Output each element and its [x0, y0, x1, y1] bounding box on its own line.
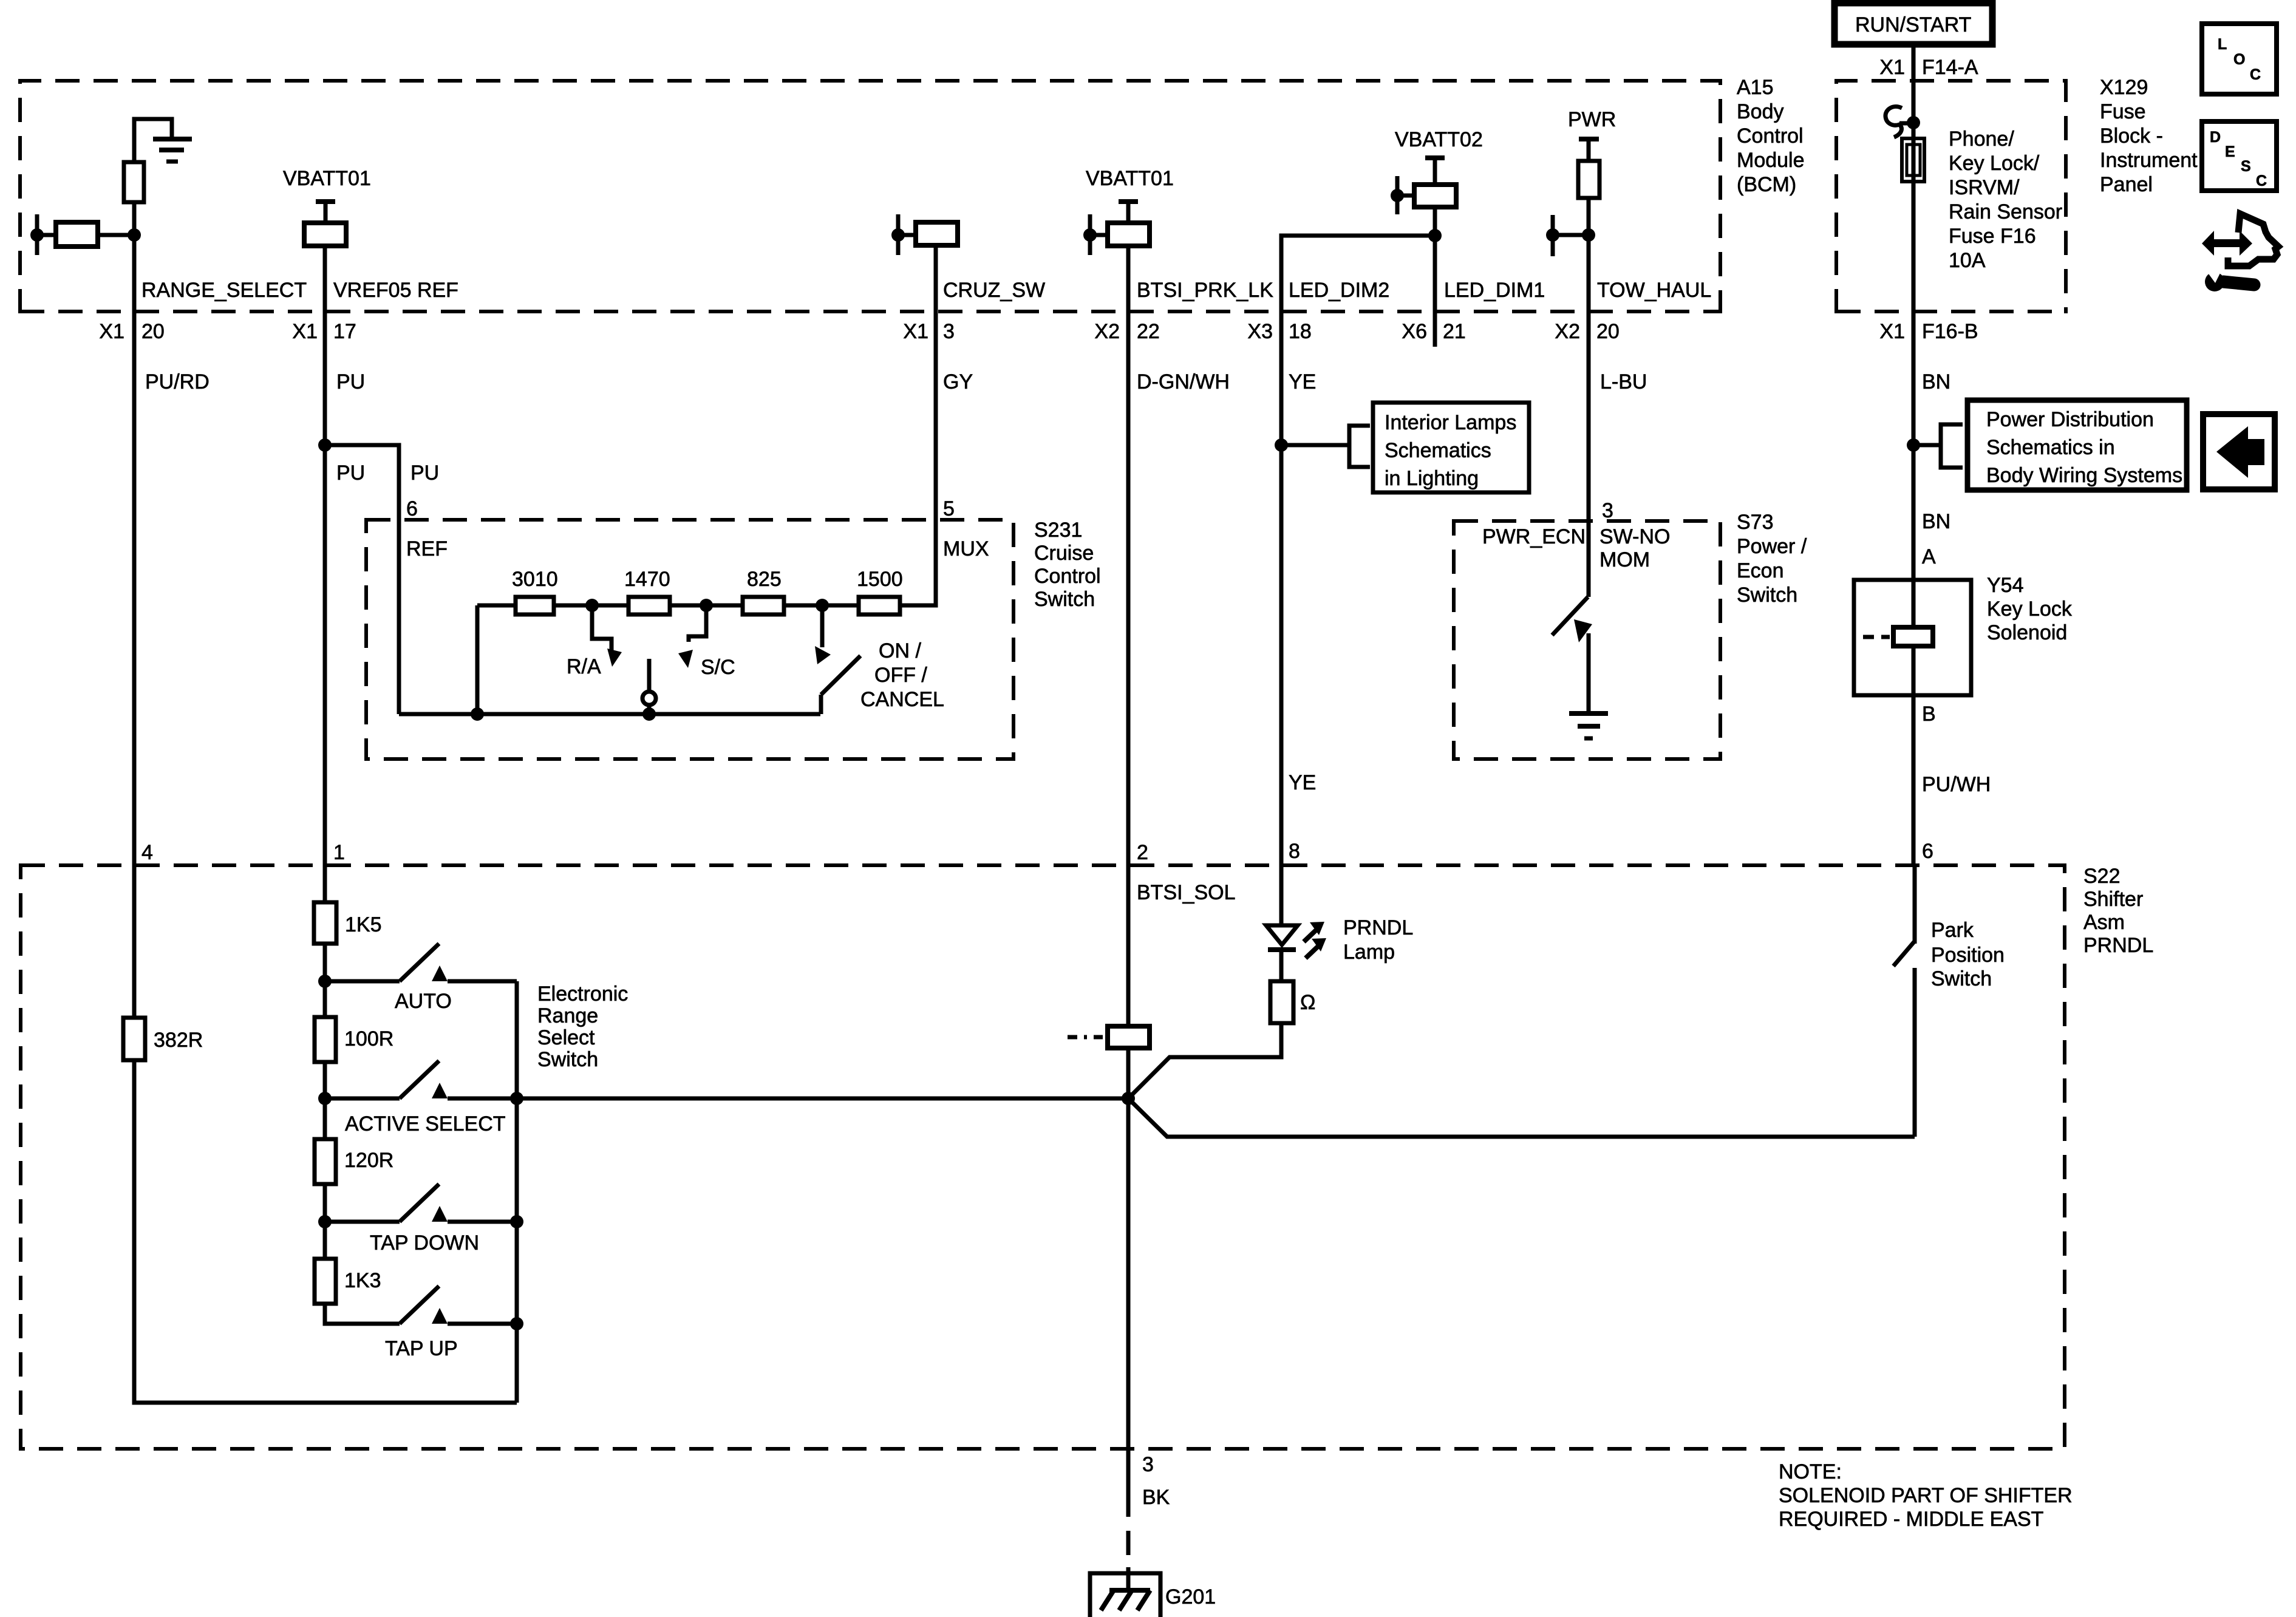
svg-text:REQUIRED - MIDDLE EAST: REQUIRED - MIDDLE EAST	[1779, 1508, 2043, 1531]
svg-text:YE: YE	[1289, 771, 1316, 794]
wire BTSI_PRK_LK (D-GN/WH) BCM X2-22 down to S22 pin 2	[1126, 246, 1131, 1026]
switch TAP DOWN	[325, 1184, 517, 1254]
wire branch PU to cruise REF pin 6	[325, 445, 399, 714]
ground (BCM internal, top left)	[134, 119, 192, 162]
svg-text:SW-NO: SW-NO	[1599, 525, 1670, 548]
wire from pull-up resistor to junction	[132, 202, 137, 235]
resistor 382R	[123, 1018, 203, 1060]
svg-text:MOM: MOM	[1599, 548, 1650, 571]
svg-text:(BCM): (BCM)	[1737, 173, 1796, 196]
PRNDL Lamp label	[1343, 916, 1413, 964]
svg-text:S22: S22	[2083, 865, 2121, 888]
cruise ladder: REF rail bottom	[399, 707, 820, 721]
svg-text:Switch: Switch	[1737, 584, 1797, 607]
svg-text:Body Wiring Systems: Body Wiring Systems	[1986, 464, 2182, 487]
svg-text:Solenoid: Solenoid	[1987, 621, 2067, 644]
wire PU/WH Y54 pin B down to S22 pin 6	[1912, 695, 1916, 865]
svg-text:ON /: ON /	[879, 639, 921, 662]
switch S73 blade (SW-NO MOM)	[1552, 597, 1592, 711]
svg-text:X2: X2	[1555, 320, 1580, 343]
svg-text:A15: A15	[1737, 76, 1774, 99]
wire VBATT02 to LED_DIM1 node	[1428, 207, 1442, 242]
svg-text:Range: Range	[537, 1004, 598, 1027]
svg-text:O: O	[2233, 51, 2245, 68]
svg-text:ISRVM/: ISRVM/	[1949, 176, 2020, 199]
svg-text:3: 3	[943, 320, 955, 343]
svg-text:GY: GY	[943, 370, 973, 393]
svg-text:Shifter: Shifter	[2083, 888, 2143, 911]
svg-text:21: 21	[1443, 320, 1466, 343]
svg-text:Body: Body	[1737, 100, 1784, 123]
fuse pull hook	[1886, 107, 1912, 137]
svg-text:S231: S231	[1034, 519, 1082, 542]
svg-text:S: S	[2241, 158, 2251, 175]
svg-text:Park: Park	[1931, 919, 1974, 942]
svg-text:NOTE:: NOTE:	[1779, 1460, 1842, 1483]
svg-text:VBATT02: VBATT02	[1395, 128, 1483, 151]
svg-text:Fuse F16: Fuse F16	[1949, 225, 2036, 248]
pin X1 F16-B (fuse output)	[1879, 320, 1978, 343]
svg-text:PU: PU	[336, 370, 365, 393]
svg-text:F16-B: F16-B	[1922, 320, 1978, 343]
svg-text:VBATT01: VBATT01	[283, 167, 371, 190]
svg-text:BK: BK	[1142, 1486, 1170, 1509]
net name SW-NO MOM	[1599, 525, 1670, 571]
svg-text:Module: Module	[1737, 149, 1805, 172]
svg-text:YE: YE	[1289, 370, 1316, 393]
wire 1K3 to TAP UP row	[325, 1304, 400, 1324]
svg-text:Power Distribution: Power Distribution	[1986, 408, 2154, 431]
svg-text:CRUZ_SW: CRUZ_SW	[943, 279, 1045, 302]
svg-text:OFF /: OFF /	[874, 664, 927, 687]
svg-text:C: C	[2256, 172, 2267, 189]
wire VREF05 REF (PU) BCM X1-17 down to S22 pin 1	[318, 246, 332, 902]
wire BTSI solenoid to node	[1122, 1048, 1135, 1105]
wire BK S22 pin 3 down to G201	[1126, 1098, 1131, 1590]
connector box (BCM internal, VREF05)	[304, 223, 346, 246]
icon wrench	[2204, 266, 2254, 291]
svg-text:S/C: S/C	[701, 656, 735, 679]
svg-text:Instrument: Instrument	[2100, 149, 2198, 172]
connector box (BCM internal, BTSI_PRK_LK)	[1108, 223, 1150, 246]
svg-text:20: 20	[141, 320, 165, 343]
svg-text:E: E	[2225, 143, 2235, 160]
svg-text:VBATT01: VBATT01	[1086, 167, 1174, 190]
svg-text:100R: 100R	[344, 1027, 393, 1050]
svg-text:ACTIVE SELECT: ACTIVE SELECT	[345, 1112, 506, 1135]
svg-text:PU/WH: PU/WH	[1922, 773, 1991, 796]
fuse description label	[1949, 128, 2062, 272]
resistor (BCM pull-up on RANGE_SELECT)	[124, 162, 144, 202]
svg-text:Select: Select	[537, 1026, 595, 1049]
svg-text:Key Lock/: Key Lock/	[1949, 152, 2040, 175]
solenoid BTSI (S22 internal)	[1068, 1026, 1150, 1048]
svg-text:10A: 10A	[1949, 249, 1986, 272]
pin X2 22 (BTSI_PRK_LK)	[1094, 320, 1159, 343]
svg-text:PU: PU	[336, 461, 365, 485]
pin X1 F14-A (RUN/START)	[1879, 56, 1978, 79]
svg-text:18: 18	[1289, 320, 1312, 343]
svg-text:B: B	[1922, 703, 1936, 726]
resistor 1470	[624, 568, 670, 614]
svg-text:A: A	[1922, 545, 1936, 568]
svg-text:BTSI_PRK_LK: BTSI_PRK_LK	[1137, 279, 1273, 302]
svg-text:Control: Control	[1034, 565, 1101, 588]
connector box (BCM internal, VBATT02)	[1414, 185, 1456, 207]
resistor (PRNDL lamp, ohm)	[1270, 981, 1315, 1023]
resistor 3010	[512, 568, 558, 614]
svg-text:X1: X1	[292, 320, 318, 343]
module A15 Body Control Module (BCM) dashed box	[20, 81, 1720, 313]
S73 label	[1737, 511, 1807, 607]
svg-text:C: C	[2250, 66, 2261, 83]
svg-text:TOW_HAUL: TOW_HAUL	[1597, 279, 1711, 302]
svg-text:Y54: Y54	[1987, 574, 2024, 597]
svg-text:D: D	[2210, 129, 2221, 146]
switch pole (cruise common)	[642, 659, 656, 714]
pin X1 20 (RANGE_SELECT)	[99, 320, 164, 343]
svg-text:X3: X3	[1247, 320, 1273, 343]
icon DESC box	[2202, 121, 2277, 191]
power flag VBATT02	[1395, 128, 1483, 185]
svg-text:LED_DIM2: LED_DIM2	[1289, 279, 1389, 302]
power flag VBATT01 (BTSI_PRK_LK)	[1086, 167, 1174, 223]
reference box Interior Lamps Schematics in Lighting	[1373, 403, 1529, 492]
A15 BCM label	[1737, 76, 1805, 196]
wire CRUZ_SW (GY) BCM X1-3 down to cruise MUX pin 5	[900, 245, 936, 605]
node stub (BCM internal input, far left)	[30, 214, 56, 255]
X129 label	[2100, 76, 2198, 196]
module S231 Cruise Control Switch dashed box	[366, 520, 1013, 759]
wire RUN/START to fuse	[1907, 44, 1920, 138]
svg-text:Position: Position	[1931, 944, 2005, 967]
svg-text:1500: 1500	[857, 568, 903, 591]
switch S/C contact	[678, 605, 735, 679]
icon back arrow box	[2203, 414, 2275, 489]
svg-text:TAP UP: TAP UP	[385, 1337, 458, 1360]
note text	[1779, 1460, 2073, 1531]
svg-text:BN: BN	[1922, 370, 1950, 393]
ERS label	[537, 982, 628, 1071]
pin X2 20 (TOW_HAUL)	[1555, 320, 1619, 343]
resistor 100R	[315, 1017, 393, 1062]
svg-text:VREF05 REF: VREF05 REF	[333, 279, 458, 302]
switch AUTO	[325, 944, 517, 1013]
svg-text:X6: X6	[1402, 320, 1427, 343]
wire to Power Distribution pointer	[1913, 424, 1963, 468]
svg-text:X129: X129	[2100, 76, 2148, 99]
S231 label	[1034, 519, 1101, 611]
svg-text:G201: G201	[1165, 1585, 1216, 1608]
pin X1 3 (CRUZ_SW)	[903, 320, 955, 343]
svg-text:6: 6	[406, 497, 418, 520]
wire 3010 to R/A node	[554, 599, 629, 612]
icon vehicle with arrow	[2202, 214, 2278, 266]
svg-text:PRNDL: PRNDL	[1343, 916, 1413, 939]
wire TOW_HAUL (L-BU) BCM X2-20 down to S73 pin 3	[1582, 198, 1595, 597]
wire node to PRNDL lamp branch	[1128, 1023, 1281, 1098]
svg-text:3: 3	[1142, 1453, 1154, 1476]
resistor 1500	[857, 568, 903, 614]
svg-text:Switch: Switch	[1034, 588, 1095, 611]
svg-text:X1: X1	[99, 320, 124, 343]
svg-text:1470: 1470	[624, 568, 670, 591]
svg-text:SOLENOID PART OF SHIFTER: SOLENOID PART OF SHIFTER	[1779, 1484, 2073, 1507]
reference box Power Distribution Schematics in Body Wiring Systems	[1967, 400, 2187, 490]
svg-text:X1: X1	[1879, 56, 1905, 79]
svg-text:RANGE_SELECT: RANGE_SELECT	[141, 279, 307, 302]
wire LED_DIM1 BCM X6-21 stub	[1433, 236, 1437, 347]
svg-text:Switch: Switch	[537, 1048, 598, 1071]
pin X3 18 (LED_DIM2)	[1247, 320, 1311, 343]
RUN/START power feed box	[1834, 3, 1992, 44]
svg-text:Power /: Power /	[1737, 535, 1807, 558]
svg-text:PWR_ECN: PWR_ECN	[1482, 525, 1586, 548]
svg-text:X2: X2	[1094, 320, 1120, 343]
pin X6 21 (LED_DIM1)	[1402, 320, 1465, 343]
switch ACTIVE SELECT	[325, 1061, 517, 1135]
svg-text:Schematics in: Schematics in	[1986, 436, 2115, 459]
svg-text:PU: PU	[410, 461, 439, 485]
svg-text:LED_DIM1: LED_DIM1	[1444, 279, 1545, 302]
node stub (BCM internal, TOW_HAUL)	[1546, 215, 1589, 256]
svg-text:Electronic: Electronic	[537, 982, 628, 1006]
power flag PWR	[1568, 108, 1616, 161]
connector box (BCM internal, CRUZ_SW)	[916, 222, 958, 245]
svg-text:L-BU: L-BU	[1600, 370, 1647, 393]
svg-text:Block -: Block -	[2100, 124, 2163, 148]
wire 382R to ladder bottom	[134, 1060, 517, 1403]
wire connector box to RANGE_SELECT node	[98, 228, 141, 242]
S22 ERS ladder: wire pin 1 to 1K5	[323, 865, 327, 902]
svg-text:6: 6	[1922, 840, 1933, 863]
wire RANGE_SELECT (PU/RD) BCM X1-20 to S22 pin 4	[132, 235, 137, 1018]
wire LED_DIM2 branch (BCM internal)	[1281, 236, 1435, 311]
svg-text:AUTO: AUTO	[395, 990, 452, 1013]
S22 label	[2083, 865, 2153, 957]
svg-text:R/A: R/A	[567, 655, 601, 678]
svg-text:120R: 120R	[344, 1149, 393, 1172]
wire ERS output to BTSI_SOL node	[517, 1097, 1128, 1101]
wire 120R to TAP DOWN node	[318, 1184, 332, 1259]
label Park Position Switch	[1931, 919, 2005, 990]
svg-text:Switch: Switch	[1931, 967, 1992, 990]
svg-text:17: 17	[333, 320, 356, 343]
wire LED_DIM2 (YE) BCM X3-18 down to PRNDL lamp	[1275, 311, 1288, 925]
svg-text:S73: S73	[1737, 511, 1774, 534]
svg-text:8: 8	[1289, 840, 1300, 863]
svg-text:PU/RD: PU/RD	[145, 370, 210, 393]
switch ON/OFF/CANCEL	[815, 605, 944, 714]
Y54 label	[1987, 574, 2073, 644]
svg-text:CANCEL: CANCEL	[860, 688, 944, 711]
svg-text:1: 1	[333, 841, 345, 864]
svg-text:X1: X1	[1879, 320, 1905, 343]
switch R/A contact	[567, 605, 622, 678]
svg-text:Schematics: Schematics	[1385, 439, 1491, 462]
icon LOC box	[2202, 24, 2277, 94]
module S22 Shifter Asm PRNDL dashed box	[21, 865, 2065, 1449]
ground G201	[1090, 1573, 1216, 1617]
svg-text:Rain Sensor: Rain Sensor	[1949, 200, 2062, 223]
svg-text:Panel: Panel	[2100, 173, 2153, 196]
wire 100R to ACTIVE SELECT node	[318, 1062, 332, 1139]
module X129 Fuse Block - Instrument Panel dashed box	[1836, 81, 2066, 313]
svg-text:in Lighting: in Lighting	[1385, 467, 1479, 490]
wire 1K5 to AUTO node	[318, 944, 332, 1017]
svg-text:1K3: 1K3	[344, 1269, 381, 1292]
svg-text:5: 5	[943, 497, 955, 520]
svg-text:REF: REF	[406, 537, 448, 560]
resistor 1K3	[315, 1259, 381, 1304]
svg-text:Econ: Econ	[1737, 559, 1784, 582]
switch Park Position (S22)	[1893, 865, 1915, 1137]
svg-text:2: 2	[1137, 841, 1148, 864]
svg-text:825: 825	[747, 568, 782, 591]
wire park switch to BTSI_SOL node	[1128, 1098, 1915, 1137]
svg-text:BTSI_SOL: BTSI_SOL	[1137, 881, 1236, 904]
svg-text:PWR: PWR	[1568, 108, 1616, 131]
solenoid Y54 Key Lock box	[1854, 580, 1971, 695]
resistor 120R	[315, 1139, 393, 1184]
power flag VBATT01 (VREF05)	[283, 167, 371, 223]
resistor 1K5	[314, 902, 382, 944]
svg-text:Ω: Ω	[1300, 991, 1315, 1014]
node stub (BCM internal, BTSI_PRK_LK)	[1083, 214, 1108, 255]
resistor (BCM pull-up on TOW_HAUL)	[1578, 161, 1599, 198]
svg-text:382R: 382R	[154, 1029, 203, 1052]
resistor 825	[743, 568, 784, 614]
svg-text:1K5: 1K5	[345, 913, 382, 936]
svg-text:Cruise: Cruise	[1034, 542, 1094, 565]
svg-text:22: 22	[1137, 320, 1160, 343]
svg-text:3: 3	[1602, 499, 1613, 522]
svg-text:X1: X1	[903, 320, 928, 343]
svg-text:BN: BN	[1922, 510, 1950, 533]
svg-text:3010: 3010	[512, 568, 558, 591]
svg-text:L: L	[2218, 36, 2227, 53]
wire BN fuse block X1 F16-B down to Y54 pin A	[1907, 182, 1920, 580]
wire ERS right rail	[510, 981, 523, 1403]
svg-text:F14-A: F14-A	[1922, 56, 1978, 79]
svg-text:MUX: MUX	[943, 537, 989, 560]
svg-text:Lamp: Lamp	[1343, 941, 1395, 964]
fuse F16 10A body	[1902, 138, 1924, 182]
svg-text:Fuse: Fuse	[2100, 100, 2146, 123]
switch TAP UP	[385, 1286, 517, 1360]
node stub (BCM internal, CRUZ_SW)	[891, 214, 916, 255]
wire 1470 to S/C node	[670, 599, 743, 612]
svg-text:20: 20	[1596, 320, 1620, 343]
ground (S73 internal)	[1569, 713, 1608, 738]
svg-text:Phone/: Phone/	[1949, 128, 2014, 151]
connector box (BCM internal, RANGE_SELECT)	[56, 222, 98, 247]
wire to Interior Lamps pointer	[1281, 426, 1370, 467]
svg-text:Asm: Asm	[2083, 911, 2125, 934]
pin X1 17 (VREF05)	[292, 320, 356, 343]
svg-text:D-GN/WH: D-GN/WH	[1137, 370, 1230, 393]
node stub (BCM internal, VBATT02)	[1391, 176, 1414, 214]
module S73 Power / Econ Switch dashed box	[1454, 521, 1720, 759]
svg-text:Control: Control	[1737, 124, 1804, 148]
cruise ladder left rail	[477, 605, 516, 714]
svg-text:Interior Lamps: Interior Lamps	[1385, 411, 1516, 434]
svg-text:RUN/START: RUN/START	[1855, 13, 1971, 36]
svg-text:Key Lock: Key Lock	[1987, 597, 2073, 621]
svg-text:PRNDL: PRNDL	[2083, 934, 2153, 957]
svg-text:TAP DOWN: TAP DOWN	[370, 1231, 479, 1254]
wire 825 to ON/OFF/CANCEL node	[784, 599, 859, 612]
LED PRNDL Lamp	[1266, 922, 1326, 981]
svg-text:4: 4	[141, 841, 153, 864]
